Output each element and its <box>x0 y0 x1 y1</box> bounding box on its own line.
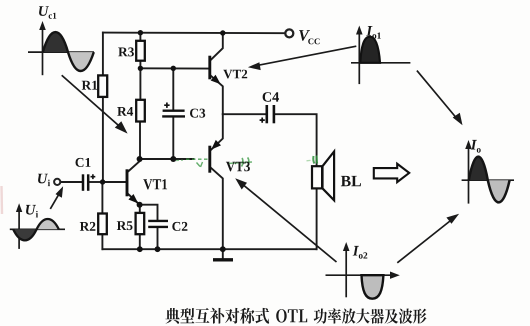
waveform Io2 axes <box>326 246 392 298</box>
speaker BL cone <box>323 152 335 201</box>
label R3 <box>118 47 134 56</box>
label BL <box>341 176 361 186</box>
resistor R5 <box>136 213 145 234</box>
wire R3 top stub <box>139 33 141 41</box>
junction dots <box>100 30 226 252</box>
label R5 <box>117 221 133 230</box>
label VT2 <box>223 70 247 79</box>
wire R2 column lower <box>101 234 103 249</box>
wire output node to C4 <box>223 113 266 115</box>
wire bottom rail (ground bus) <box>102 248 316 250</box>
resistor R4 <box>136 100 145 122</box>
wire VT2 collector to rail <box>211 33 223 60</box>
arrow Uc1 to circuit <box>62 75 128 133</box>
arrow Io1 to Io <box>417 71 463 126</box>
transistor VT3 base bar <box>208 146 211 173</box>
transistor VT2 emitter arrowhead <box>211 76 220 84</box>
arrow Io1 to VT2 <box>248 46 356 70</box>
caption: 典型互补对称式 OTL 功率放大器及波形 <box>165 308 426 324</box>
label R1 <box>82 81 98 90</box>
wire R3-R4 junction stub <box>139 61 141 100</box>
wire VT3 collector to bottom rail <box>211 168 223 249</box>
waveform Uc1 axes <box>28 25 94 76</box>
waveform Uc1 sine (dark positive, light negative) <box>43 32 68 52</box>
label C1 <box>76 158 91 167</box>
capacitor C3 plates <box>162 111 185 117</box>
wire R5 bottom stub <box>139 234 141 249</box>
wire input terminal to C1 <box>60 181 81 183</box>
capacitor C1 plates <box>83 174 88 191</box>
resistor R3 <box>136 41 145 61</box>
label Io1 <box>366 26 381 39</box>
label VT3 <box>226 162 250 172</box>
wire VT1 emitter node to R5 <box>139 205 141 213</box>
label Uc1 <box>39 6 56 19</box>
green scan artifact: dashed VT3 base segment <box>186 158 209 160</box>
waveform Io2 negative hump (gray) <box>362 275 384 299</box>
capacitor C3 polarity plus <box>164 103 169 108</box>
wire ground stub <box>222 249 224 258</box>
wire emitter node to C2 <box>140 205 158 221</box>
label R4 <box>117 107 133 116</box>
label C3 <box>190 109 205 118</box>
capacitor C2 plates <box>148 221 168 227</box>
resistor R2 <box>98 214 107 235</box>
wire VT1 emitter diagonal <box>128 194 140 205</box>
arrow Ui waveform to input terminal <box>50 186 63 209</box>
green scan artifact at speaker top <box>313 156 317 164</box>
label C2 <box>172 222 187 231</box>
label C4 <box>263 92 279 102</box>
wire VT1 collector diagonal <box>128 159 140 172</box>
waveform Ui axes <box>10 207 65 249</box>
wire VT1 collector / VT3 base bus <box>140 158 194 160</box>
VCC terminal circle <box>285 29 293 37</box>
waveform Io1 axes <box>351 29 410 84</box>
resistor R1 <box>98 75 107 97</box>
waveform Io1 positive hump (dark) <box>360 37 380 63</box>
label VT1 <box>143 179 167 189</box>
wire speaker to bottom rail <box>316 188 318 249</box>
transistor VT2 base bar <box>208 56 211 80</box>
wire C3 lower stem <box>172 117 174 159</box>
label R2 <box>80 222 96 231</box>
wire VT2 emitter to output node <box>211 76 223 114</box>
pink scan artifact left edge <box>0 186 3 214</box>
green scan artifact over VT3 label <box>228 162 252 164</box>
label Ui input <box>38 174 50 186</box>
transistor VT3 emitter arrowhead (PNP, points at bar) <box>212 141 220 149</box>
label Ui wave <box>26 205 38 218</box>
transistor VT1 base bar <box>126 169 129 196</box>
speaker BL driver <box>312 166 322 188</box>
wire C1 to left rail <box>89 181 103 183</box>
wire VT1 base from left rail <box>103 181 127 183</box>
input terminal circle Ui <box>54 179 60 185</box>
capacitor C4 polarity plus <box>260 118 265 123</box>
capacitor C4 plates <box>267 105 274 123</box>
arrow Io2 to Io <box>397 214 459 263</box>
wire base drive bus (R3/R4 junction to VT2 base) <box>140 67 209 69</box>
ground symbol <box>213 258 233 261</box>
label Io <box>471 140 481 153</box>
hollow block arrow <box>374 164 409 182</box>
capacitor C1 polarity plus <box>91 174 96 179</box>
arrow Io2 to VT3 <box>235 178 336 262</box>
waveform Io sine (dark positive, gray negative) <box>469 157 488 181</box>
wire left rail R1 to C1 junction <box>102 97 104 182</box>
transistor VT1 emitter arrowhead <box>129 195 137 203</box>
wire R4 bottom to VT1 collector node <box>139 122 141 160</box>
wire VT3 emitter to output node <box>211 114 223 150</box>
wire left rail upper <box>102 33 104 76</box>
wire R2 column upper <box>101 182 103 214</box>
wire C2 bottom stub <box>157 227 159 249</box>
waveform Ui sine (dark negative first, light positive) <box>13 229 36 240</box>
wire C4 to speaker column <box>275 114 317 166</box>
wire C3 upper stem <box>172 68 174 109</box>
waveform Io axes <box>462 144 514 204</box>
wire top rail VCC <box>103 32 285 35</box>
label VCC <box>299 30 320 44</box>
label Io2 <box>353 246 368 259</box>
